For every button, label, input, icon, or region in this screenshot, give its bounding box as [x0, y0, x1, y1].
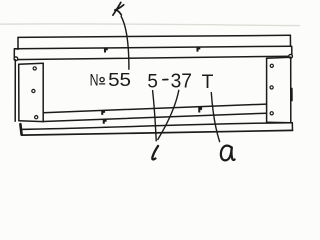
left batten nail 1 — [33, 67, 36, 70]
svg-text:5: 5 — [147, 70, 158, 92]
svg-text:N: N — [90, 71, 99, 89]
rail left end cap — [14, 49, 18, 60]
left batten left edge — [18, 64, 20, 120]
bottom plank left end cap — [20, 124, 21, 134]
left batten nail 3 — [35, 116, 38, 119]
handwritten label a — [221, 146, 235, 161]
top plank left edge — [17, 37, 19, 49]
joggle break mark on rail top at x=102 — [104, 48, 108, 53]
lower seam line — [43, 113, 266, 121]
faint scan streak in top margin — [0, 24, 300, 26]
rail right end cap — [289, 46, 292, 56]
front panel right edge / box right edge — [290, 57, 292, 123]
top plank top edge — [18, 35, 290, 37]
handwritten label l (iota) — [152, 146, 158, 160]
rail bottom edge — [14, 56, 291, 59]
marking No sign underline — [100, 83, 105, 85]
right batten nail 1 — [270, 64, 273, 67]
joggle break on lower seam at x=103 — [103, 119, 107, 124]
left batten right edge — [42, 63, 44, 121]
right batten nail 3 — [270, 112, 273, 115]
panel bottom seam — [43, 104, 266, 113]
right batten nail 2 — [270, 86, 273, 89]
svg-text:37: 37 — [171, 69, 192, 92]
svg-text:55: 55 — [108, 70, 131, 91]
bottom plank top edge — [21, 123, 292, 130]
marking date dash — [163, 79, 168, 81]
rail top edge — [14, 46, 291, 49]
bottom plank bottom edge — [22, 130, 293, 135]
front panel left edge — [14, 60, 16, 121]
left batten top edge — [19, 63, 44, 64]
joggle break mark on rail top at x=197 — [196, 47, 200, 52]
leader line right for label l — [158, 90, 179, 139]
joggle break on panel bottom seam at x=198 — [198, 107, 202, 113]
left batten nail 2 — [32, 89, 35, 92]
svg-text:T: T — [202, 72, 214, 93]
top plank right edge — [289, 35, 291, 46]
joggle break on panel bottom seam at x=101 — [101, 110, 105, 115]
right batten left edge — [266, 58, 268, 122]
right batten bottom edge — [267, 121, 291, 124]
leader line for label a — [211, 93, 219, 142]
stencil marking text — [90, 69, 214, 93]
leader line left for label l — [153, 91, 157, 141]
right batten top edge — [267, 57, 291, 58]
handwritten label k — [113, 2, 124, 15]
right edge thickened blob — [291, 89, 293, 101]
left batten bottom edge — [19, 120, 43, 123]
leader line for label k — [121, 17, 129, 70]
rail right end nail circle — [289, 54, 293, 58]
marking No sign o — [100, 78, 104, 82]
bottom plank right edge — [291, 123, 293, 131]
rail left end nail circle — [14, 57, 18, 61]
